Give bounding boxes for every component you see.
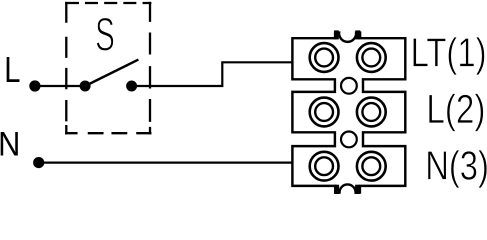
switch right contact dot [126,81,137,92]
net label LT(1) [411,29,487,75]
switch S blade (open) [85,60,138,86]
terminal 2 (L) left screw [310,98,339,127]
svg-text:N: N [0,125,20,163]
terminal 1 (LT) right screw [357,43,386,72]
node L label [4,49,20,90]
wire L to switch [35,85,85,87]
terminal 1 (LT) left screw [310,43,339,72]
svg-text:LT(1): LT(1) [411,29,487,75]
node L dot [29,80,40,91]
mounting hole between pole 1 and 2 [341,78,357,94]
net label L(2) [426,86,485,132]
bottom notch solid posts [334,185,339,194]
svg-text:S: S [95,9,115,62]
switch S enclosure (dashed box) [65,2,151,135]
svg-text:N(3): N(3) [425,142,487,188]
switch left contact dot [80,81,91,92]
wire N to terminal [39,162,293,164]
node N dot [33,157,44,168]
terminal 3 (N) right screw [357,152,386,181]
mounting hole between pole 2 and 3 [341,132,357,148]
svg-text:L: L [4,49,20,90]
net label N(3) [425,142,487,188]
top notch solid posts [334,30,339,39]
terminal 2 (L) right screw [357,98,386,127]
svg-text:L(2): L(2) [426,86,485,132]
switch S label [95,9,115,62]
node N label [0,125,20,163]
terminal block outline (3-pole strip) [292,33,405,193]
wire switch to jog [132,62,293,86]
terminal 3 (N) left screw [310,152,339,181]
